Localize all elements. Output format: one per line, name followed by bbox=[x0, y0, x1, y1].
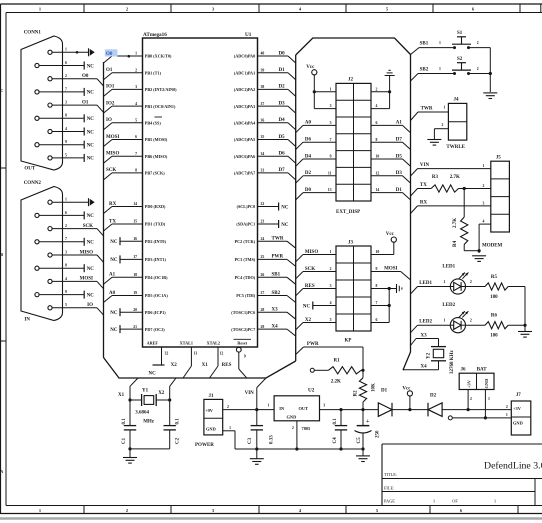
svg-text:PC2 (TCK): PC2 (TCK) bbox=[235, 239, 256, 244]
wire J1 pin 2 to U2 IN bbox=[223, 409, 274, 411]
svg-text:21: 21 bbox=[133, 325, 137, 329]
connector CONN2 DB9 IN bbox=[21, 187, 63, 321]
svg-text:+3V: +3V bbox=[467, 379, 472, 388]
svg-text:8: 8 bbox=[65, 264, 67, 268]
svg-text:180: 180 bbox=[490, 295, 498, 300]
svg-text:J3: J3 bbox=[348, 241, 354, 246]
svg-text:NC: NC bbox=[303, 304, 311, 309]
ground at J2 bbox=[389, 76, 391, 109]
svg-text:PC4 (TDO): PC4 (TDO) bbox=[235, 275, 256, 280]
svg-text:26: 26 bbox=[261, 273, 265, 277]
svg-text:PC5 (TDI): PC5 (TDI) bbox=[236, 293, 256, 298]
svg-text:D3: D3 bbox=[279, 101, 286, 106]
svg-text:J5: J5 bbox=[496, 156, 502, 161]
svg-text:NC: NC bbox=[87, 241, 95, 246]
CONN1 pin 6 bbox=[35, 63, 39, 67]
svg-text:7: 7 bbox=[135, 152, 137, 156]
svg-text:1: 1 bbox=[444, 280, 446, 284]
svg-text:NC: NC bbox=[87, 293, 95, 298]
svg-text:EXT_DISP: EXT_DISP bbox=[336, 210, 360, 215]
svg-text:SB1: SB1 bbox=[272, 273, 281, 278]
svg-text:2.7K: 2.7K bbox=[453, 218, 458, 228]
svg-text:MOSI: MOSI bbox=[384, 267, 397, 272]
wire bus ring (middle vertical) bbox=[295, 55, 297, 361]
svg-text:BAT: BAT bbox=[477, 368, 488, 373]
svg-text:POWER: POWER bbox=[195, 443, 214, 448]
wire net O1 U1 pin 2 to bus bbox=[112, 72, 143, 74]
svg-text:3: 3 bbox=[135, 85, 137, 89]
svg-text:32: 32 bbox=[165, 352, 169, 356]
svg-text:1: 1 bbox=[330, 87, 332, 91]
svg-text:3: 3 bbox=[330, 104, 332, 108]
no-connect CONN1 pin 6 bbox=[83, 62, 85, 70]
svg-text:(TOSC1)PC6: (TOSC1)PC6 bbox=[231, 310, 255, 315]
wire R6 to ground bbox=[508, 324, 525, 326]
svg-text:33: 33 bbox=[261, 169, 265, 173]
svg-text:32768 KHz: 32768 KHz bbox=[450, 349, 455, 374]
svg-text:D2: D2 bbox=[430, 393, 437, 398]
no-connect CONN2 pin 7 bbox=[83, 238, 85, 246]
wire net LED1 bus to LED1 bbox=[411, 287, 418, 295]
wire bus ring (bottom edge) bbox=[104, 358, 296, 379]
svg-text:S1: S1 bbox=[457, 31, 463, 36]
wire net MOSI CONN2 pin 4 to bus bbox=[97, 281, 104, 288]
svg-text:(ADC0)PA0: (ADC0)PA0 bbox=[234, 54, 255, 59]
wire net VIN bus to regulator input rail bbox=[257, 378, 266, 388]
CONN2 pin 3 bbox=[48, 253, 52, 257]
svg-text:12: 12 bbox=[220, 352, 224, 356]
no-connect U1 pin 22 bbox=[258, 206, 279, 208]
svg-text:9: 9 bbox=[65, 140, 67, 144]
wire net RX bus to J5 pin 3 bbox=[411, 206, 418, 214]
connector J5 MODEM bbox=[491, 161, 510, 232]
svg-text:1: 1 bbox=[65, 198, 67, 202]
CONN2 pin 8 bbox=[35, 266, 39, 270]
led LED2 bbox=[450, 318, 465, 333]
wire net X2 bus to J3 pin 5 bbox=[296, 323, 303, 330]
svg-text:PB4 (SS): PB4 (SS) bbox=[145, 121, 162, 126]
svg-text:SCK: SCK bbox=[305, 267, 315, 272]
svg-text:U1: U1 bbox=[245, 32, 252, 38]
svg-text:(ADC5)PA5: (ADC5)PA5 bbox=[234, 137, 255, 142]
svg-text:X3: X3 bbox=[421, 334, 428, 339]
svg-text:DefendLine 3.0: DefendLine 3.0 bbox=[484, 461, 542, 472]
no-connect CONN1 pin 4 bbox=[83, 128, 85, 136]
svg-text:10: 10 bbox=[376, 155, 380, 159]
svg-text:SCK: SCK bbox=[83, 224, 93, 229]
wire net SB1 U1 pin 26 to bus bbox=[258, 276, 288, 278]
wire net TWR U1 pin 24 to bus bbox=[258, 240, 288, 242]
svg-text:R6: R6 bbox=[491, 314, 498, 319]
svg-text:Vcc: Vcc bbox=[402, 386, 411, 391]
svg-text:J1: J1 bbox=[209, 394, 215, 399]
svg-text:7805: 7805 bbox=[302, 426, 312, 431]
svg-text:18: 18 bbox=[133, 273, 137, 277]
svg-text:Reset: Reset bbox=[237, 340, 247, 345]
svg-text:XTAL2: XTAL2 bbox=[207, 340, 220, 345]
svg-text:1: 1 bbox=[439, 67, 441, 71]
svg-text:MODEM: MODEM bbox=[482, 244, 503, 249]
svg-text:34: 34 bbox=[261, 152, 265, 156]
wire net O0 CONN1 pin 2 to bus bbox=[97, 79, 104, 86]
resistor R4 2.7K bbox=[463, 189, 465, 218]
svg-text:SB2: SB2 bbox=[272, 291, 281, 296]
svg-text:NC: NC bbox=[87, 267, 95, 272]
svg-text:VIN: VIN bbox=[420, 163, 430, 168]
CONN1 pin 9 bbox=[35, 143, 39, 147]
capacitor C5 250 electrolytic bbox=[362, 410, 364, 426]
svg-text:2: 2 bbox=[227, 405, 229, 409]
svg-text:NC: NC bbox=[281, 223, 289, 228]
svg-text:SB2: SB2 bbox=[420, 67, 429, 72]
svg-text:NC: NC bbox=[281, 205, 289, 210]
connector CONN1 DB9 OUT bbox=[21, 36, 63, 170]
svg-text:MOSI: MOSI bbox=[80, 277, 93, 282]
svg-text:6: 6 bbox=[376, 318, 378, 322]
svg-text:9: 9 bbox=[65, 290, 67, 294]
connector J2 EXT_DISP bbox=[336, 83, 371, 201]
svg-text:+3V: +3V bbox=[513, 406, 522, 411]
wire net X3 bus to Y2 bbox=[411, 339, 417, 346]
svg-text:39: 39 bbox=[261, 68, 265, 72]
shield arrow CONN2 pin 1 bbox=[88, 198, 90, 206]
svg-text:IO: IO bbox=[106, 118, 112, 123]
junction dot artifacts bbox=[76, 51, 79, 54]
svg-text:D6: D6 bbox=[305, 138, 312, 143]
svg-text:5: 5 bbox=[330, 318, 332, 322]
svg-text:22: 22 bbox=[261, 202, 265, 206]
svg-text:37: 37 bbox=[261, 102, 265, 106]
svg-text:IO: IO bbox=[87, 303, 93, 308]
svg-text:XTAL1: XTAL1 bbox=[180, 340, 193, 345]
svg-text:2: 2 bbox=[135, 68, 137, 72]
wire net D3 U1 pin 37 to bus bbox=[258, 105, 289, 107]
svg-text:40: 40 bbox=[261, 52, 265, 56]
svg-text:3: 3 bbox=[65, 101, 67, 105]
svg-text:D0: D0 bbox=[305, 188, 312, 193]
svg-text:X4: X4 bbox=[272, 324, 279, 329]
svg-text:2: 2 bbox=[442, 123, 444, 127]
wire net D1 J2 pin 14 to bus bbox=[371, 192, 403, 194]
ground at crystal caps bbox=[129, 449, 131, 458]
svg-text:8: 8 bbox=[135, 169, 137, 173]
svg-text:OF: OF bbox=[452, 498, 458, 503]
connector J7 bbox=[511, 401, 531, 435]
svg-text:2: 2 bbox=[470, 319, 472, 323]
wire net D3 J2 pin 12 to bus bbox=[371, 175, 403, 177]
svg-text:4: 4 bbox=[135, 102, 137, 106]
wire net SB2 U1 pin 27 to bus bbox=[258, 295, 288, 297]
svg-text:1: 1 bbox=[439, 41, 441, 45]
svg-text:25: 25 bbox=[261, 255, 265, 259]
no-connect CONN2 pin 9 bbox=[83, 291, 85, 299]
svg-text:GND: GND bbox=[206, 427, 216, 432]
shield arrow CONN1 pin 1 bbox=[88, 48, 90, 56]
svg-text:PC3 (TMS): PC3 (TMS) bbox=[235, 257, 256, 262]
CONN1 pin 8 bbox=[35, 116, 39, 120]
wire D2 to J6/J7 bbox=[442, 409, 511, 411]
svg-text:X2: X2 bbox=[305, 318, 312, 323]
svg-text:2.2K: 2.2K bbox=[331, 379, 341, 384]
svg-text:11: 11 bbox=[328, 171, 332, 175]
svg-text:35: 35 bbox=[261, 135, 265, 139]
svg-text:24: 24 bbox=[261, 237, 265, 241]
wire net MISO CONN2 pin 3 to bus bbox=[97, 255, 104, 262]
svg-text:C1: C1 bbox=[122, 437, 127, 444]
wire net O0 U1 pin 1 to bus bbox=[112, 55, 143, 57]
svg-text:TWR: TWR bbox=[272, 237, 284, 242]
wire R5 to ground rail bbox=[508, 286, 525, 288]
wire J3 pins 8,7,6 to ground bbox=[371, 288, 397, 290]
svg-text:O1: O1 bbox=[82, 100, 89, 105]
svg-text:250: 250 bbox=[376, 430, 381, 438]
svg-text:1: 1 bbox=[444, 319, 446, 323]
svg-text:2: 2 bbox=[126, 508, 128, 513]
svg-text:1: 1 bbox=[65, 48, 67, 52]
no-connect CONN2 pin 6 bbox=[83, 211, 85, 219]
svg-text:1: 1 bbox=[483, 164, 485, 168]
svg-text:27: 27 bbox=[261, 291, 265, 295]
no-connect CONN1 pin 8 bbox=[83, 114, 85, 122]
svg-text:2: 2 bbox=[506, 405, 508, 409]
svg-text:MHz: MHz bbox=[143, 420, 155, 425]
svg-text:5: 5 bbox=[65, 153, 67, 157]
svg-text:(ADC6)PA6: (ADC6)PA6 bbox=[234, 154, 255, 159]
svg-text:CONN1: CONN1 bbox=[24, 31, 42, 36]
wire J4 pin 2 to ground bbox=[434, 128, 448, 130]
wire net D0 U1 pin 40 to bus bbox=[258, 55, 289, 57]
no-connect CONN1 pin 5 bbox=[83, 154, 85, 162]
svg-text:O0: O0 bbox=[106, 52, 113, 57]
wire LED2 to R6 bbox=[466, 324, 486, 326]
ground at J4 bbox=[427, 139, 441, 141]
svg-text:MISO: MISO bbox=[106, 152, 119, 157]
wire net MISO bus to J3 pin 1 bbox=[296, 255, 303, 262]
svg-text:PB0 (XCK/T0): PB0 (XCK/T0) bbox=[145, 54, 172, 59]
wire net MOSI U1 pin 6 to bus bbox=[112, 139, 143, 141]
svg-text:(ADC4)PA4: (ADC4)PA4 bbox=[234, 121, 256, 126]
wire net D5 J2 pin 10 to bus bbox=[371, 158, 403, 160]
crystal Y1 3.6864 MHz bbox=[130, 399, 142, 401]
svg-text:Y2: Y2 bbox=[427, 352, 432, 359]
CONN2 pin 6 bbox=[35, 213, 39, 217]
svg-text:3: 3 bbox=[65, 250, 67, 254]
svg-text:D2: D2 bbox=[305, 171, 312, 176]
svg-text:GND: GND bbox=[513, 421, 523, 426]
led LED1 bbox=[450, 279, 465, 294]
svg-text:0.33: 0.33 bbox=[269, 435, 274, 444]
svg-text:2: 2 bbox=[65, 224, 67, 228]
svg-text:PB6 (MISO): PB6 (MISO) bbox=[145, 154, 168, 159]
svg-text:0.1: 0.1 bbox=[333, 418, 338, 425]
svg-text:PD6 (ICP1): PD6 (ICP1) bbox=[145, 310, 166, 315]
svg-text:MISO: MISO bbox=[80, 250, 93, 255]
svg-text:TX: TX bbox=[420, 183, 427, 188]
wire net D7 J2 pin 8 to bus bbox=[371, 141, 403, 143]
wire LED1 to R5 bbox=[466, 286, 486, 288]
svg-text:A: A bbox=[0, 469, 3, 474]
wire ground rail bbox=[235, 448, 363, 450]
svg-text:16: 16 bbox=[133, 237, 137, 241]
wire GND rail to J7 pin 1 bbox=[448, 416, 452, 420]
CONN2 pin 7 bbox=[35, 240, 39, 244]
svg-text:D1: D1 bbox=[279, 68, 286, 73]
connector J4 TWRLE bbox=[448, 103, 466, 140]
svg-text:3: 3 bbox=[483, 201, 485, 205]
svg-text:7: 7 bbox=[65, 237, 67, 241]
svg-text:2.7K: 2.7K bbox=[450, 175, 460, 180]
wire net D2 bus to J2 pin 11 bbox=[296, 176, 303, 183]
svg-text:1: 1 bbox=[267, 404, 269, 408]
svg-text:R5: R5 bbox=[491, 275, 498, 280]
wire net A1 J2 pin 6 to bus bbox=[371, 124, 403, 126]
svg-text:PWR: PWR bbox=[272, 255, 284, 260]
svg-text:+: + bbox=[366, 419, 370, 425]
svg-text:D0: D0 bbox=[279, 51, 286, 56]
svg-text:TWR: TWR bbox=[421, 106, 433, 111]
wire R3 to J5 pin 2 bbox=[459, 188, 491, 190]
svg-text:D6: D6 bbox=[279, 152, 286, 157]
CONN2 pin 1 bbox=[48, 200, 52, 204]
regulator U2 7805 bbox=[274, 396, 319, 421]
wire net D4 U1 pin 36 to bus bbox=[258, 122, 289, 124]
wire net SB1 bus to S1 bbox=[411, 48, 420, 55]
svg-text:Vcc: Vcc bbox=[306, 65, 315, 70]
svg-text:ATmega16: ATmega16 bbox=[143, 32, 167, 38]
svg-text:S2: S2 bbox=[457, 57, 463, 62]
svg-text:PB3 (OC0/AIN1): PB3 (OC0/AIN1) bbox=[145, 104, 176, 109]
svg-text:PB5 (MOSI): PB5 (MOSI) bbox=[145, 137, 168, 142]
svg-text:2: 2 bbox=[126, 6, 128, 11]
svg-text:D7: D7 bbox=[279, 168, 286, 173]
svg-text:TITLE:: TITLE: bbox=[384, 472, 397, 477]
svg-text:2: 2 bbox=[292, 426, 294, 430]
svg-text:PD0 (RXD): PD0 (RXD) bbox=[145, 204, 166, 209]
wire bus ring (top edge) bbox=[296, 38, 411, 55]
svg-text:VIN: VIN bbox=[245, 391, 255, 396]
power Vcc at diode node bbox=[407, 391, 412, 396]
svg-text:PB7 (SCK): PB7 (SCK) bbox=[145, 171, 165, 176]
CONN1 pin 5 bbox=[48, 156, 52, 160]
wire net A0 bus to J2 pin 5 bbox=[296, 125, 303, 132]
svg-text:OUT: OUT bbox=[24, 167, 36, 172]
svg-text:GND: GND bbox=[484, 379, 489, 389]
svg-text:Y1: Y1 bbox=[142, 389, 149, 394]
svg-text:X1: X1 bbox=[202, 363, 209, 368]
CONN1 pin 3 bbox=[48, 103, 52, 107]
capacitor C4 0.1 bbox=[340, 410, 342, 426]
svg-text:IO2: IO2 bbox=[106, 101, 115, 106]
mcu U1 ATmega16 bbox=[143, 38, 258, 347]
ground at C5 bbox=[362, 449, 364, 456]
svg-text:5: 5 bbox=[330, 121, 332, 125]
svg-text:3: 3 bbox=[330, 284, 332, 288]
svg-text:PD7 (OC2): PD7 (OC2) bbox=[145, 327, 165, 332]
svg-text:X1: X1 bbox=[118, 393, 125, 398]
title block bbox=[382, 443, 542, 445]
svg-text:(ADC7)PA7: (ADC7)PA7 bbox=[234, 171, 255, 176]
wire net O1 CONN1 pin 3 to bus bbox=[97, 105, 104, 112]
svg-text:4: 4 bbox=[65, 277, 67, 281]
svg-text:2: 2 bbox=[376, 87, 378, 91]
svg-text:9: 9 bbox=[330, 155, 332, 159]
svg-text:C2: C2 bbox=[175, 437, 180, 444]
connector J6 BAT bbox=[459, 373, 494, 389]
svg-text:D5: D5 bbox=[279, 135, 286, 140]
wire R4 / J5 pin 4 to ground bbox=[463, 245, 465, 251]
svg-text:1: 1 bbox=[39, 6, 41, 11]
CONN1 pin 1 bbox=[48, 50, 52, 54]
svg-text:IN: IN bbox=[279, 406, 285, 411]
svg-text:NC: NC bbox=[87, 91, 95, 96]
no-connect U1 pin 20 bbox=[120, 311, 143, 313]
wire net A0 U1 pin 19 to bus bbox=[112, 295, 143, 297]
svg-text:B: B bbox=[0, 252, 3, 257]
wire Vcc to J3 pin 10 bbox=[393, 242, 395, 254]
no-connect J3 pin 4 bbox=[313, 305, 336, 307]
svg-text:NC: NC bbox=[87, 117, 95, 122]
svg-text:14: 14 bbox=[376, 188, 380, 192]
svg-text:X4: X4 bbox=[421, 364, 428, 369]
svg-text:1: 1 bbox=[330, 250, 332, 254]
svg-text:NC: NC bbox=[87, 214, 95, 219]
svg-text:R4: R4 bbox=[453, 240, 458, 247]
svg-text:6: 6 bbox=[135, 135, 137, 139]
svg-text:0.1: 0.1 bbox=[175, 418, 180, 425]
svg-text:RX: RX bbox=[420, 200, 428, 205]
wire net X3 U1 pin 28 to bus bbox=[258, 311, 288, 313]
ground at J3 bbox=[396, 284, 398, 293]
wire U2 GND pin 2 to ground rail bbox=[296, 421, 298, 449]
wire net A1 U1 pin 18 to bus bbox=[112, 276, 143, 278]
resistor R6 180 bbox=[485, 322, 508, 329]
svg-text:PD4 (OC1B): PD4 (OC1B) bbox=[145, 275, 168, 280]
CONN2 pin 9 bbox=[35, 293, 39, 297]
wire net SCK U1 pin 8 to bus bbox=[112, 172, 143, 174]
svg-text:19: 19 bbox=[133, 291, 137, 295]
svg-text:U2: U2 bbox=[308, 387, 315, 393]
svg-text:X2: X2 bbox=[171, 363, 178, 368]
ground at C3 bbox=[256, 449, 258, 459]
wire net X4 bus to Y2 bbox=[403, 369, 404, 371]
wire S2 to ground bbox=[469, 73, 491, 75]
wire bus ring (right vertical) bbox=[403, 55, 411, 371]
svg-text:28: 28 bbox=[261, 308, 265, 312]
svg-text:D5: D5 bbox=[396, 154, 403, 159]
svg-text:A1: A1 bbox=[109, 273, 116, 278]
no-connect U1 pin 17 bbox=[120, 258, 143, 260]
wire net D0 bus to J2 pin 13 bbox=[296, 193, 303, 200]
diode D2 bbox=[410, 409, 428, 411]
svg-text:NC: NC bbox=[87, 157, 95, 162]
svg-text:13: 13 bbox=[194, 352, 198, 356]
wire net D5 U1 pin 35 to bus bbox=[258, 139, 289, 141]
svg-text:6: 6 bbox=[65, 211, 67, 215]
wire net X4 U1 pin 29 to bus bbox=[258, 328, 288, 330]
svg-text:PB1 (T1): PB1 (T1) bbox=[145, 70, 162, 75]
svg-text:1: 1 bbox=[488, 397, 490, 401]
svg-text:(ADC3)PA3: (ADC3)PA3 bbox=[234, 104, 255, 109]
wire net X2 from XTAL1 to bus bbox=[183, 366, 191, 378]
svg-text:R2: R2 bbox=[354, 390, 359, 397]
svg-text:J6: J6 bbox=[461, 368, 467, 373]
wire net D6 bus to J2 pin 7 bbox=[296, 142, 303, 149]
resistor R2 10K bbox=[362, 370, 364, 378]
svg-text:A1: A1 bbox=[396, 121, 403, 126]
svg-text:4: 4 bbox=[330, 301, 332, 305]
svg-text:2: 2 bbox=[477, 41, 479, 45]
svg-text:9: 9 bbox=[244, 355, 246, 359]
